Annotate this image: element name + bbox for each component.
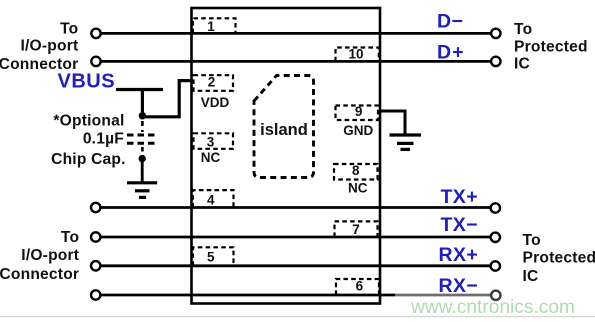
- svg-text:I/O-port: I/O-port: [21, 247, 79, 264]
- pin 7 box: [335, 221, 378, 237]
- svg-text:8: 8: [352, 163, 360, 178]
- junction dot 2: [139, 155, 146, 162]
- svg-text:4: 4: [207, 192, 215, 207]
- junction dot 1: [139, 112, 146, 119]
- terminal L4: [91, 232, 100, 241]
- pin 3 box: [194, 133, 234, 149]
- svg-text:5: 5: [207, 250, 215, 265]
- svg-text:To: To: [523, 232, 541, 249]
- wire GND to ground (right): [380, 111, 406, 134]
- svg-text:0.1µF: 0.1µF: [83, 130, 124, 147]
- svg-text:I/O-port: I/O-port: [20, 38, 78, 55]
- wire RX- black part: [101, 294, 395, 297]
- capacitor C1 plate 2 (dashed): [127, 142, 158, 145]
- pin 4 box: [193, 190, 234, 207]
- pin 1 box (dashed, open bottom): [193, 18, 236, 33]
- svg-text:6: 6: [356, 279, 364, 294]
- pin 6 box: [336, 279, 379, 295]
- dashed link below cap: [141, 147, 144, 155]
- pin 5 box: [193, 247, 234, 265]
- terminal R4: [491, 233, 500, 242]
- svg-text:IC: IC: [514, 56, 530, 73]
- terminal R1: [491, 29, 500, 38]
- svg-text:Connector: Connector: [0, 266, 79, 283]
- dashed optional link: [141, 121, 144, 132]
- svg-text:VDD: VDD: [201, 95, 230, 110]
- VBUS wire: [116, 81, 193, 117]
- svg-text:Protected: Protected: [523, 250, 595, 267]
- svg-text:Chip Cap.: Chip Cap.: [51, 151, 126, 168]
- svg-text:10: 10: [348, 47, 363, 62]
- terminal L6: [91, 290, 100, 299]
- svg-text:1: 1: [207, 19, 215, 34]
- svg-text:D−: D−: [437, 11, 464, 33]
- svg-text:D+: D+: [437, 41, 465, 63]
- svg-text:TX+: TX+: [441, 186, 479, 208]
- terminal L3: [91, 203, 100, 212]
- svg-text:island: island: [260, 121, 308, 139]
- terminal L2: [91, 57, 100, 66]
- svg-text:RX−: RX−: [439, 275, 479, 297]
- svg-text:RX+: RX+: [439, 244, 479, 266]
- svg-text:2: 2: [208, 75, 216, 90]
- pin 2 box: [194, 75, 234, 91]
- svg-text:To: To: [514, 21, 532, 38]
- wire RX+ (line 5): [101, 264, 490, 267]
- svg-text:IC: IC: [523, 268, 539, 285]
- wire TX- (line 4): [101, 236, 490, 239]
- svg-text:GND: GND: [343, 123, 373, 138]
- svg-text:To: To: [60, 20, 78, 37]
- terminal R2: [491, 57, 500, 66]
- ground (left): [127, 183, 157, 198]
- svg-text:9: 9: [355, 104, 363, 119]
- terminal L5: [91, 261, 100, 270]
- svg-text:To: To: [61, 229, 79, 246]
- terminal R3: [491, 203, 500, 212]
- chip U1 outline: [192, 8, 381, 304]
- wire D- (line 1): [101, 32, 491, 35]
- bottom separator line: [0, 316, 595, 318]
- svg-text:NC: NC: [348, 181, 368, 196]
- wire D+ (line 2): [101, 60, 491, 63]
- wire TX+ (line 3): [101, 206, 490, 209]
- svg-text:7: 7: [352, 222, 360, 237]
- svg-text:Protected: Protected: [514, 38, 588, 55]
- svg-text:NC: NC: [201, 150, 221, 165]
- island (die paddle): [254, 76, 314, 178]
- svg-text:VBUS: VBUS: [58, 71, 116, 93]
- pin 9 box: [336, 106, 379, 121]
- pin 10 box: [336, 48, 379, 62]
- wire RX- gray part: [395, 294, 491, 297]
- svg-text:*Optional: *Optional: [53, 113, 124, 130]
- ground (right): [390, 135, 422, 149]
- capacitor C1 plate 1 (dashed): [127, 134, 158, 137]
- svg-text:TX−: TX−: [441, 214, 479, 236]
- wire to ground: [141, 159, 144, 182]
- terminal R5: [491, 261, 500, 270]
- terminal L1: [91, 29, 100, 38]
- svg-text:3: 3: [207, 135, 215, 150]
- pin 8 box: [334, 164, 378, 180]
- terminal R6 (gray): [491, 291, 500, 300]
